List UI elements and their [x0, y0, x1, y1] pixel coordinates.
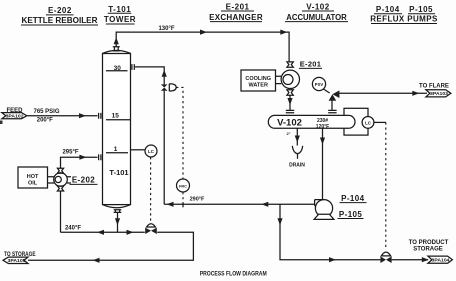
- header T-101 TOWER: [104, 5, 136, 24]
- svg-text:KETTLE REBOILER: KETTLE REBOILER: [22, 16, 98, 25]
- e-202 bottom nozzle: [57, 186, 63, 191]
- label P-104: [340, 194, 367, 203]
- header E-202 KETTLE REBOILER: [21, 6, 98, 25]
- tray 30: [106, 65, 128, 72]
- feed tag FEED: [2, 108, 27, 119]
- svg-text:WATER: WATER: [248, 82, 267, 88]
- svg-text:E-202: E-202: [72, 176, 95, 185]
- wire cooling water stub: [276, 76, 282, 83]
- wire hot oil stub: [48, 177, 55, 183]
- svg-text:230#: 230#: [317, 118, 328, 124]
- svg-text:240°F: 240°F: [65, 225, 81, 231]
- arrow left storage line: [93, 258, 100, 263]
- signal FRC to reflux valve: [176, 87, 183, 179]
- wire drain drop: [296, 128, 298, 145]
- valve LV product with actuator: [380, 252, 391, 263]
- svg-text:LC: LC: [365, 120, 372, 125]
- arrow right product mid: [329, 257, 336, 262]
- svg-text:OIL: OIL: [28, 181, 38, 187]
- vessel V-102 accumulator: [268, 115, 355, 130]
- psv nozzle flanges: [328, 110, 336, 112]
- svg-text:TO FLARE: TO FLARE: [419, 84, 449, 90]
- svg-text:DRAIN: DRAIN: [289, 163, 305, 169]
- controller FRC: [177, 179, 190, 192]
- arrow right flare: [412, 91, 419, 96]
- controller PSV: [312, 77, 329, 93]
- svg-text:200°F: 200°F: [37, 117, 53, 123]
- arrow down tower bottoms: [115, 218, 120, 225]
- tag TO STORAGE: [3, 252, 36, 263]
- wire e-202 right stub: [67, 177, 71, 183]
- arrow down pump suction: [320, 138, 325, 145]
- wire reboiler downcomer: [60, 191, 62, 232]
- svg-text:E-202: E-202: [48, 6, 72, 15]
- svg-text:3PA103: 3PA103: [430, 91, 448, 96]
- valve FV reflux with D actuator: [161, 84, 176, 91]
- header V-102 ACCUMULATOR: [285, 3, 348, 23]
- svg-text:130°F: 130°F: [158, 26, 174, 32]
- speck left edge: [0, 121, 3, 125]
- signal LC to product valve: [374, 121, 386, 123]
- wire reflux line from pump: [164, 203, 314, 205]
- arrow right product: [422, 257, 429, 262]
- exchanger E-202 kettle reboiler: [54, 173, 68, 187]
- svg-text:TOWER: TOWER: [104, 15, 136, 24]
- arrow right overhead corner: [280, 30, 287, 35]
- tower bottom nozzle: [114, 210, 122, 213]
- svg-text:P-105: P-105: [339, 210, 362, 219]
- label E-202: [70, 176, 98, 185]
- cooling water box: [241, 70, 276, 91]
- svg-text:FRC: FRC: [179, 184, 187, 188]
- tray 1: [106, 146, 128, 153]
- svg-text:E-201: E-201: [300, 60, 322, 69]
- svg-text:T-101: T-101: [109, 168, 128, 177]
- svg-text:15: 15: [112, 112, 120, 119]
- wire tower bottom drop: [117, 212, 119, 232]
- arrow left bottoms: [97, 230, 104, 235]
- wire pump suction: [322, 128, 324, 200]
- svg-text:P-104: P-104: [376, 5, 400, 14]
- arrow left reflux b: [261, 202, 268, 207]
- arrow up overhead riser: [114, 37, 119, 44]
- arrow right bottoms: [127, 230, 134, 235]
- svg-text:STORAGE: STORAGE: [413, 247, 443, 253]
- label E-201: [299, 60, 322, 69]
- e-201 bottom nozzle: [287, 90, 293, 95]
- svg-text:3PA104: 3PA104: [432, 258, 450, 263]
- reboiler return flanges: [99, 154, 101, 160]
- tower top nozzle: [113, 47, 120, 51]
- svg-text:HOT: HOT: [27, 174, 39, 180]
- arrow right feed: [79, 113, 86, 118]
- svg-text:P-105: P-105: [409, 5, 433, 14]
- svg-text:3PA102: 3PA102: [6, 114, 24, 119]
- wire reboiler return 295F: [61, 157, 98, 168]
- svg-text:V-102: V-102: [306, 3, 329, 12]
- wire flare line: [339, 92, 427, 94]
- wire condenser outlet: [289, 95, 291, 110]
- tower T-101 vessel: [103, 50, 131, 207]
- level bridle on V-102: [344, 108, 368, 135]
- svg-text:ACCUMULATOR: ACCUMULATOR: [286, 13, 347, 22]
- relief valve PSV body: [329, 90, 340, 110]
- svg-text:P-104: P-104: [341, 194, 364, 203]
- tag TO PRODUCT STORAGE: [409, 240, 453, 263]
- wire reflux riser: [163, 91, 165, 205]
- controller LC accumulator: [362, 117, 374, 129]
- svg-text:REFLUX PUMPS: REFLUX PUMPS: [370, 15, 438, 24]
- svg-text:T-101: T-101: [108, 5, 131, 14]
- arrow right reboiler return: [79, 155, 86, 160]
- svg-text:E-201: E-201: [226, 3, 250, 12]
- arrow left reflux a: [167, 202, 174, 207]
- svg-text:3PA105: 3PA105: [8, 258, 26, 263]
- header E-201 EXCHANGER: [209, 3, 263, 23]
- svg-text:COOLING: COOLING: [245, 76, 271, 82]
- header P-104 P-105 REFLUX PUMPS: [370, 5, 438, 23]
- arrow down drain: [295, 136, 300, 143]
- wire product branch: [280, 204, 380, 259]
- label P-105: [338, 210, 364, 219]
- e-202 top nozzle: [57, 168, 63, 173]
- svg-text:295°F: 295°F: [62, 149, 78, 155]
- arrow right overhead mid: [200, 30, 207, 35]
- valve LV bottoms with actuator: [145, 224, 157, 234]
- controller LC tower: [131, 145, 158, 157]
- wire reflux entry: [135, 67, 164, 85]
- wire bottoms header: [61, 231, 145, 233]
- svg-text:1: 1: [114, 146, 118, 153]
- tray 15: [106, 112, 131, 119]
- svg-text:LC: LC: [148, 149, 155, 154]
- exchanger E-201 condenser: [281, 70, 299, 88]
- arrow down condenser outlet: [287, 98, 292, 105]
- drain funnel: [292, 146, 302, 159]
- svg-text:2": 2": [286, 131, 290, 136]
- svg-text:EXCHANGER: EXCHANGER: [209, 13, 263, 22]
- v-102 inlet flanges: [286, 110, 294, 112]
- hot oil box: [18, 167, 48, 188]
- arrow down product branch: [277, 218, 282, 225]
- wire overhead vapor 130F line: [116, 32, 289, 62]
- svg-text:290°F: 290°F: [190, 196, 205, 202]
- feed nozzle flanges: [99, 113, 101, 119]
- arrow up reflux: [162, 70, 167, 77]
- svg-text:TO PRODUCT: TO PRODUCT: [409, 240, 449, 246]
- signal LC to bottoms valve: [150, 157, 152, 221]
- svg-text:PROCESS FLOW DIAGRAM: PROCESS FLOW DIAGRAM: [200, 272, 267, 278]
- svg-text:PSV: PSV: [315, 82, 324, 87]
- wire feed line: [27, 115, 98, 117]
- svg-text:V-102: V-102: [277, 118, 302, 129]
- reflux nozzle flanges: [132, 64, 134, 70]
- tag TO FLARE: [419, 84, 451, 97]
- e-201 top nozzle: [287, 62, 293, 67]
- pump P-104: [314, 200, 334, 220]
- svg-text:765 PSIG: 765 PSIG: [33, 109, 59, 115]
